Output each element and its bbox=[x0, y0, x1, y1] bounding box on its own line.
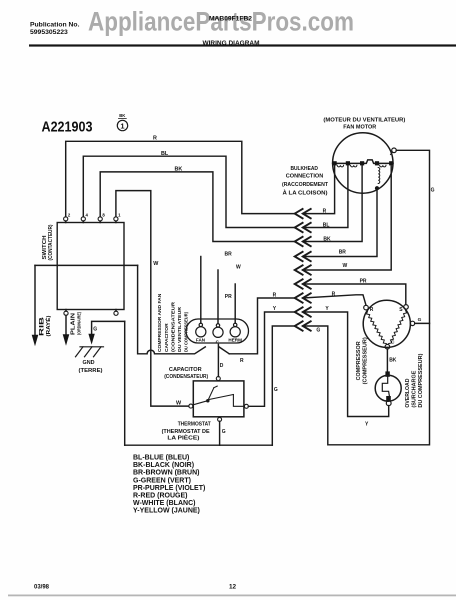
wire thermostat right to Y chevron bbox=[248, 312, 294, 406]
svg-text:G: G bbox=[222, 429, 226, 435]
wire BR chevron to motor coil bbox=[303, 190, 377, 256]
plain lead arrow bbox=[63, 315, 70, 346]
svg-text:(COMPRESSEUR): (COMPRESSEUR) bbox=[363, 337, 369, 384]
wire R capacitor to chevron bbox=[229, 298, 295, 354]
svg-text:DU COMPRESSEUR): DU COMPRESSEUR) bbox=[418, 353, 424, 407]
svg-text:G: G bbox=[274, 387, 278, 393]
svg-text:COMPRESSOR: COMPRESSOR bbox=[356, 341, 362, 380]
wire W from terminal 1 to thermostat bbox=[116, 191, 189, 407]
svg-text:(MOTEUR DU VENTILATEUR): (MOTEUR DU VENTILATEUR) bbox=[323, 117, 405, 123]
wire rib horizontal through switch bbox=[35, 264, 138, 266]
wire switch to capacitor with hop bbox=[138, 265, 206, 353]
svg-text:DU COMPRESSEUR): DU COMPRESSEUR) bbox=[184, 312, 190, 352]
svg-text:FAN: FAN bbox=[196, 337, 206, 342]
svg-text:FAN MOTOR: FAN MOTOR bbox=[343, 125, 376, 131]
wire R chevron to motor bbox=[303, 166, 335, 214]
label COMPRESSOR AND FAN CAPACITOR bbox=[157, 293, 189, 352]
svg-text:BR-BROWN (BRUN): BR-BROWN (BRUN) bbox=[133, 470, 200, 477]
svg-text:1: 1 bbox=[120, 122, 124, 131]
svg-text:DU VENTILATEUR: DU VENTILATEUR bbox=[177, 307, 183, 352]
svg-text:BR: BR bbox=[339, 249, 347, 255]
wire BK chevron to motor bbox=[303, 166, 362, 242]
svg-text:D: D bbox=[220, 363, 224, 369]
fan motor winding line bbox=[333, 160, 393, 164]
wire BK top bbox=[100, 172, 295, 242]
label THERMOSTAT bbox=[162, 422, 212, 442]
compressor terminal labels bbox=[370, 307, 422, 346]
overload element bbox=[382, 377, 389, 396]
compressor terminals R S C G bbox=[364, 305, 415, 349]
svg-text:G-GREEN (VERT): G-GREEN (VERT) bbox=[133, 477, 191, 484]
svg-text:PR-PURPLE (VIOLET): PR-PURPLE (VIOLET) bbox=[133, 485, 205, 492]
label PLAIN (ORDINAIRE) bbox=[71, 312, 82, 335]
publication number bbox=[30, 22, 80, 36]
svg-text:PR: PR bbox=[360, 279, 367, 285]
header rule bbox=[29, 44, 456, 46]
wire compressor C to overload BK bbox=[386, 349, 388, 371]
wire W chevron to motor bbox=[303, 166, 391, 270]
svg-text:(TERRE): (TERRE) bbox=[79, 368, 103, 374]
thermostat terminals bbox=[189, 377, 249, 422]
svg-text:BL: BL bbox=[161, 151, 169, 157]
label RIB (RAYE) bbox=[40, 315, 53, 336]
svg-text:(SURCHARGE: (SURCHARGE bbox=[411, 370, 417, 408]
capacitor bottom diagonals bbox=[219, 347, 229, 354]
svg-text:G: G bbox=[431, 188, 435, 194]
svg-text:BR: BR bbox=[225, 251, 233, 257]
svg-text:LA PIÈCE): LA PIÈCE) bbox=[167, 434, 199, 442]
wire color legend bbox=[133, 455, 205, 515]
svg-text:BL: BL bbox=[323, 222, 330, 228]
svg-text:C: C bbox=[391, 339, 395, 345]
bulkhead connectors bbox=[295, 209, 311, 331]
overload bottom nub bbox=[386, 396, 391, 401]
svg-text:BK: BK bbox=[119, 113, 125, 118]
compressor windings bbox=[367, 311, 387, 344]
svg-text:BK-BLACK (NOIR): BK-BLACK (NOIR) bbox=[133, 462, 194, 469]
fan motor winding dots bbox=[333, 161, 394, 165]
svg-text:(CONTACTEUR): (CONTACTEUR) bbox=[48, 224, 54, 260]
capacitor terminals FAN C HERM bbox=[196, 323, 241, 337]
compressor body bbox=[363, 300, 410, 347]
rib lead arrow bbox=[32, 265, 39, 346]
svg-text:W: W bbox=[153, 261, 159, 267]
svg-text:Publication No.: Publication No. bbox=[30, 22, 80, 29]
wire BL chevron to motor bbox=[303, 166, 348, 228]
svg-text:BK: BK bbox=[389, 358, 397, 364]
fan motor winding scallops bbox=[337, 165, 386, 183]
wire capacitor C to thermostat D bbox=[217, 344, 219, 376]
svg-text:A221903: A221903 bbox=[42, 119, 93, 136]
svg-text:CAPACITOR: CAPACITOR bbox=[164, 323, 170, 352]
svg-text:Y-YELLOW (JAUNE): Y-YELLOW (JAUNE) bbox=[133, 508, 200, 515]
svg-text:(ORDINAIRE): (ORDINAIRE) bbox=[77, 312, 82, 335]
ground wire bbox=[92, 321, 125, 334]
svg-text:(CONDENSATEUR: (CONDENSATEUR bbox=[170, 301, 176, 352]
switch bottom terminals bbox=[64, 310, 118, 316]
wire R chevron to compressor R bbox=[303, 295, 366, 305]
svg-text:OVERLOAD: OVERLOAD bbox=[405, 378, 411, 407]
bottom bus wire bbox=[125, 444, 273, 446]
overload body bbox=[375, 375, 401, 401]
svg-text:R: R bbox=[332, 292, 336, 298]
bottom scan line bbox=[8, 595, 456, 597]
fan motor aux coil dot bbox=[375, 186, 379, 190]
svg-text:R: R bbox=[240, 358, 244, 364]
wire ground to bottom bus bbox=[124, 321, 126, 445]
wire compressor G to right bus bbox=[415, 322, 430, 324]
fan motor M1 bbox=[333, 133, 393, 193]
label FAN MOTOR bbox=[323, 117, 405, 130]
label OVERLOAD (SURCHARGE DU COMPRESSEUR) bbox=[405, 353, 424, 407]
svg-text:R: R bbox=[273, 293, 277, 299]
svg-text:COMPRESSOR AND FAN: COMPRESSOR AND FAN bbox=[157, 293, 163, 352]
svg-text:BK: BK bbox=[323, 236, 331, 242]
svg-text:À LA CLOISON): À LA CLOISON) bbox=[283, 189, 328, 196]
svg-text:(THERMOSTAT DE: (THERMOSTAT DE bbox=[162, 429, 210, 435]
svg-text:(CONDENSATEUR): (CONDENSATEUR) bbox=[164, 374, 208, 380]
wire PR chevron to compressor S bbox=[303, 284, 406, 304]
label SWITCH (CONTACTEUR) bbox=[42, 224, 54, 260]
capacitor C1 body bbox=[186, 319, 249, 343]
overload OL1 top nub bbox=[385, 371, 389, 376]
svg-text:BULKHEAD: BULKHEAD bbox=[290, 166, 318, 172]
svg-text:R: R bbox=[370, 307, 374, 313]
svg-text:R-RED (ROUGE): R-RED (ROUGE) bbox=[133, 492, 187, 499]
svg-text:RIB: RIB bbox=[40, 316, 46, 336]
title WIRING DIAGRAM bbox=[203, 40, 260, 47]
wire thermostat bottom G bbox=[219, 421, 221, 445]
svg-text:CAPACITOR: CAPACITOR bbox=[169, 367, 202, 373]
fan motor G terminal bbox=[391, 148, 397, 155]
svg-text:MAB09F1FB2: MAB09F1FB2 bbox=[209, 16, 253, 23]
svg-text:CONNECTION: CONNECTION bbox=[286, 173, 324, 179]
switch SW1 box bbox=[57, 223, 124, 310]
svg-text:G: G bbox=[93, 327, 97, 333]
svg-text:(RACCORDEMENT: (RACCORDEMENT bbox=[282, 182, 329, 188]
thermostat switch symbol bbox=[195, 386, 244, 406]
svg-text:W: W bbox=[236, 264, 241, 270]
svg-text:HERM: HERM bbox=[228, 337, 242, 342]
wire R top bbox=[66, 141, 295, 217]
label BULKHEAD CONNECTION bbox=[282, 166, 329, 197]
wire Y chevron to overload bbox=[303, 312, 389, 417]
wire G chevron to bottom right bbox=[303, 150, 430, 445]
svg-text:03/98: 03/98 bbox=[34, 585, 50, 591]
wire BL top bbox=[83, 156, 294, 227]
svg-text:BK: BK bbox=[175, 167, 183, 173]
svg-text:BL-BLUE (BLEU): BL-BLUE (BLEU) bbox=[133, 455, 189, 462]
label GND (TERRE) bbox=[79, 360, 103, 374]
wire G chevron to bottom bus bbox=[272, 326, 294, 445]
svg-text:SWITCH: SWITCH bbox=[42, 235, 48, 259]
svg-text:12: 12 bbox=[229, 584, 237, 591]
capacitor stems up bbox=[200, 257, 202, 324]
svg-text:W: W bbox=[343, 263, 348, 269]
ground symbol bbox=[76, 347, 104, 357]
svg-text:G: G bbox=[316, 327, 320, 333]
switch top terminals bbox=[64, 217, 118, 223]
svg-text:R: R bbox=[323, 209, 327, 215]
svg-text:THERMOSTAT: THERMOSTAT bbox=[178, 422, 212, 428]
label COMPRESSOR (COMPRESSEUR) bbox=[356, 337, 369, 384]
svg-text:GND: GND bbox=[83, 360, 95, 366]
svg-text:W-WHITE (BLANC): W-WHITE (BLANC) bbox=[133, 500, 195, 507]
svg-text:5995305223: 5995305223 bbox=[30, 29, 68, 36]
svg-text:G: G bbox=[418, 317, 422, 323]
note marker circled 1 bbox=[117, 113, 127, 131]
thermostat box bbox=[193, 381, 244, 417]
label CAPACITOR (CONDENSATEUR) bbox=[164, 367, 208, 380]
svg-text:PR: PR bbox=[225, 294, 232, 300]
svg-text:(RAYÉ): (RAYÉ) bbox=[44, 315, 52, 336]
svg-text:R: R bbox=[153, 136, 157, 142]
switch terminal numbers 2 4 8 1 bbox=[68, 213, 121, 218]
